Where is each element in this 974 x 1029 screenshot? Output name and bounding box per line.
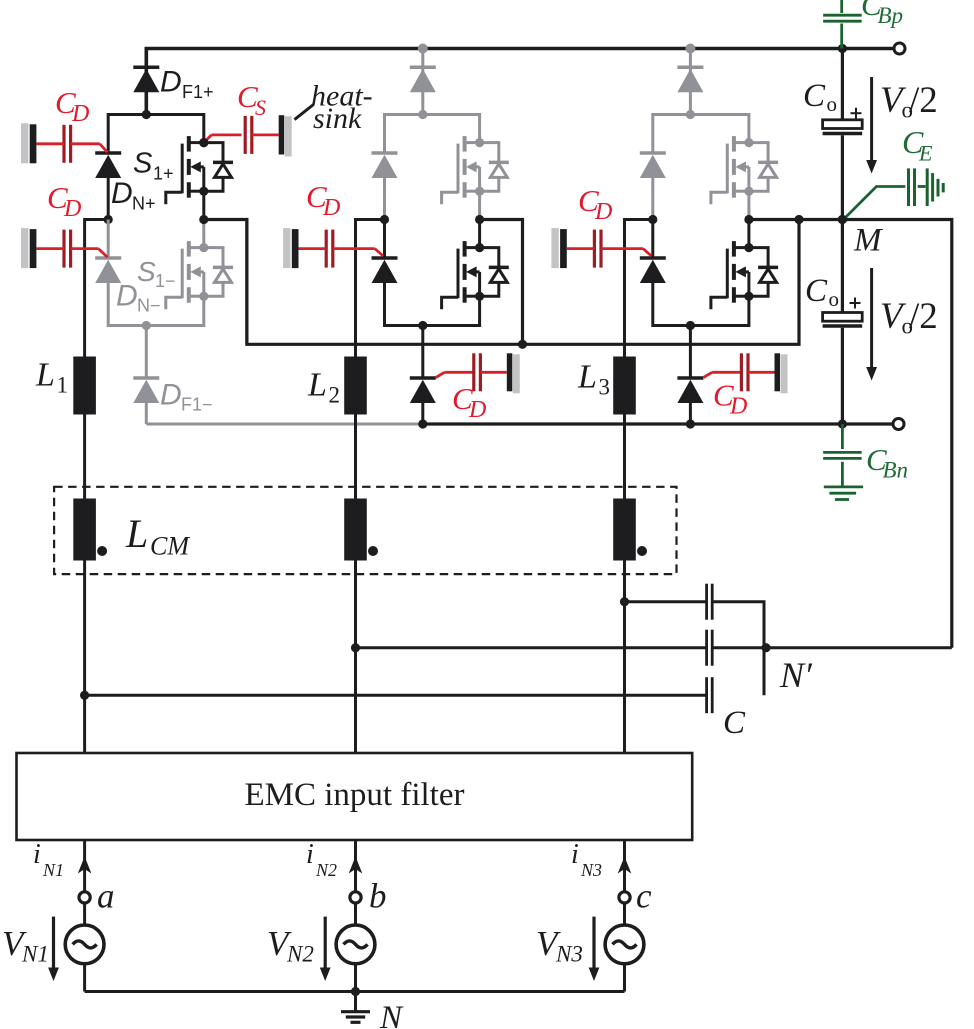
inductor L_2 (winding)	[344, 357, 367, 415]
wire: M to C_o bottom	[841, 220, 844, 313]
wire: leg 3 bridge bottom rail	[653, 283, 749, 326]
wire: phase 3 tap to capacitor C (top)	[625, 600, 707, 603]
wire: L_2 to common-mode choke	[354, 415, 357, 499]
EMC input filter box	[17, 753, 693, 840]
node: leg 3 top rail junction	[685, 44, 695, 54]
wire: negative DC rail gray section (from D_F1-)	[146, 423, 421, 426]
wire: leg 1 midpoint drop to bus	[204, 220, 247, 345]
svg-text:/2: /2	[909, 296, 938, 337]
node: phase 1 tap	[80, 691, 89, 700]
wire: phase 3 line to EMC filter	[623, 602, 626, 753]
diode D_F2-	[410, 378, 436, 403]
wire: D_N3+ anode to phase node B	[651, 178, 654, 220]
svg-text:D: D	[729, 394, 747, 420]
wire: midpoint bus (switch outputs to M)	[247, 220, 799, 345]
wire: node B down to D_N1- cathode	[107, 220, 110, 259]
capacitor C_E (M to earth)	[843, 187, 905, 220]
node: D_F2- on negative rail	[418, 419, 427, 428]
wire: bridge bottom to D_F1-	[145, 326, 148, 379]
wire: L_3 to common-mode choke	[623, 415, 626, 499]
svg-text:S: S	[255, 95, 266, 120]
node: leg 1 switch midpoint (to M bus)	[199, 215, 208, 224]
L_CM polarity dot phase 1	[97, 546, 107, 556]
L_CM polarity dot phase 2	[368, 546, 378, 556]
wire: top rail to positive output terminal	[842, 47, 894, 51]
wire: leg 2 bridge bottom rail	[385, 283, 480, 326]
capacitor C_D (leg2 D_F2- to heatsink)	[436, 372, 445, 377]
wire: phase 2 line to EMC filter	[354, 648, 357, 753]
wire: D_N2+ anode to phase node B	[383, 178, 386, 220]
wire: neutral rail N	[85, 990, 625, 993]
svg-text:D: D	[468, 397, 486, 423]
wire: EMC filter to terminal c with i_N3 arrow	[623, 840, 626, 892]
arrow: i_N1 current direction	[78, 857, 92, 874]
svg-text:D: D	[111, 177, 133, 210]
wire: C top right plate to star point	[712, 602, 764, 696]
wire: phase node B exit to boost inductor L_3	[625, 220, 653, 357]
svg-text:N2: N2	[286, 942, 314, 967]
svg-text:N+: N+	[132, 194, 156, 214]
wire: node B down to D_N2- cathode	[383, 220, 386, 259]
svg-text:o: o	[829, 287, 840, 311]
svg-text:D: D	[63, 196, 81, 222]
wire: choke phase 3 down	[623, 561, 626, 602]
svg-text:N2: N2	[315, 860, 337, 880]
wire: node B down to D_N3- cathode	[651, 220, 654, 259]
svg-text:sink: sink	[313, 102, 362, 135]
leg 2: vertical wire rail to node A (through D_F2+)	[421, 49, 424, 115]
capacitor C_D (leg1 D_N+ to heatsink)	[21, 123, 28, 163]
svg-text:L: L	[125, 511, 148, 556]
node: leg 3 switch midpoint (to M bus)	[744, 215, 753, 224]
node: C_o bottom on negative rail	[838, 419, 847, 428]
svg-text:o: o	[827, 92, 838, 116]
arrow: i_N2 current direction	[349, 857, 363, 874]
arrow: V_N3 voltage direction	[592, 917, 595, 969]
leg 1: vertical wire rail to node A (through D_F1+)	[145, 49, 148, 115]
wire: C middle right plate to N' and M	[712, 646, 952, 649]
diode D_N3+	[640, 153, 666, 178]
node: neutral at ground	[351, 987, 360, 996]
svg-text:D: D	[594, 199, 612, 225]
AC source V_N3	[605, 925, 644, 964]
capacitor C phase 3	[705, 584, 708, 620]
arrow: V_o/2 bottom	[870, 268, 873, 368]
svg-text:CM: CM	[150, 532, 190, 561]
node: S_1+ drain (redrawn)	[199, 138, 208, 147]
diode D_N1+	[95, 153, 121, 178]
node: bus junction leg2	[518, 340, 527, 349]
wire: positive DC rail (top)	[146, 49, 842, 115]
svg-text:F1+: F1+	[182, 82, 214, 102]
capacitor C_o (top)	[823, 120, 863, 129]
wire: D_F3- anode to negative rail	[689, 403, 692, 424]
AC source V_N2	[336, 925, 375, 964]
terminal b	[350, 892, 361, 903]
L_CM winding phase 2	[344, 499, 367, 561]
diode D_N2+	[372, 153, 398, 178]
wire: negative rail to negative output terminal	[842, 422, 894, 425]
capacitor C_Bp (positive rail to earth)	[840, 0, 843, 13]
svg-text:a: a	[97, 877, 115, 916]
wire: rail node down to C_o top	[841, 49, 844, 120]
L_CM winding phase 3	[613, 499, 636, 561]
svg-text:i: i	[33, 839, 41, 870]
transistor S_1+ (upper MOSFET)	[166, 136, 233, 204]
node: leg 2 bridge bottom center	[418, 321, 427, 330]
diode D_N1-	[95, 258, 121, 283]
wire: S_2+ source down to mid node	[478, 191, 481, 219]
transistor S_1- (lower MOSFET)	[166, 241, 233, 309]
wire: leg 1 bridge bottom rail	[108, 283, 204, 326]
wire: EMC filter to terminal b with i_N2 arrow	[354, 840, 357, 892]
wire: phase node B exit to boost inductor L_2	[356, 220, 385, 357]
wire: terminal b to source V_N2	[354, 903, 357, 925]
wire: M line from leg3 to right edge	[749, 220, 952, 648]
wire: C_o top to M	[841, 135, 844, 219]
svg-text:N3: N3	[580, 860, 602, 880]
diode D_F1-	[133, 378, 159, 403]
wire: source V_N1 to neutral rail	[83, 964, 86, 992]
svg-text:N3: N3	[555, 942, 583, 967]
node: D_F3- on negative rail	[686, 419, 695, 428]
wire: L_1 to common-mode choke	[83, 415, 86, 499]
transistor S_3+ (upper MOSFET)	[711, 136, 778, 204]
arrow: V_N1 voltage direction	[52, 917, 55, 969]
svg-text:C: C	[723, 705, 746, 741]
svg-text:N−: N−	[137, 296, 161, 316]
diode D_F3-	[677, 378, 703, 403]
wire: leg 3 branch at node A	[653, 115, 749, 154]
diode D_F2+	[410, 67, 436, 92]
svg-text:1−: 1−	[155, 271, 176, 291]
node: top rail at C_o string	[838, 44, 847, 53]
node: M bus junction at C_o string	[838, 215, 847, 224]
wire: terminal a to source V_N1	[83, 903, 86, 925]
wire: terminal c to source V_N3	[623, 903, 626, 925]
node: phase 3 tap	[620, 597, 629, 606]
svg-text:S: S	[137, 256, 156, 287]
leg 3: vertical wire rail to node A (through D_F3+)	[689, 49, 692, 115]
plus sign C_o bottom	[850, 302, 861, 304]
transistor S_3- (lower MOSFET)	[711, 241, 778, 309]
node: M with C_E tap	[838, 215, 847, 224]
node A leg 2	[418, 110, 427, 119]
svg-text:D: D	[71, 101, 89, 127]
svg-text:F1−: F1−	[181, 395, 213, 415]
svg-text:S: S	[133, 148, 153, 180]
wire: S_1+ source down to mid node	[202, 191, 205, 219]
wire: phase 1 tap to capacitor C (bottom)	[85, 694, 707, 697]
ground N	[354, 992, 357, 1012]
svg-text:D: D	[160, 66, 182, 99]
node: leg 2 switch midpoint (to M bus)	[475, 215, 484, 224]
wire: source V_N3 to neutral rail	[623, 964, 626, 992]
wire: D_F1- anode to negative rail	[145, 403, 148, 424]
node B (phase) leg 1	[104, 215, 113, 224]
node N' star point	[761, 643, 770, 652]
transistor S_2+ (upper MOSFET)	[442, 136, 509, 204]
diode D_F1+	[133, 67, 159, 92]
capacitor C_Bn (negative rail to earth)	[841, 424, 844, 449]
arrow: V_N2 voltage direction	[324, 917, 327, 969]
wire: bridge bottom to D_F3-	[689, 326, 692, 379]
svg-text:i: i	[571, 839, 579, 870]
capacitor C_D (leg1 D_N- to heatsink)	[21, 228, 28, 268]
wire: D_F2- anode to negative rail	[421, 403, 424, 424]
svg-text:D: D	[322, 195, 340, 221]
capacitor C_D (leg2 D_N- to heatsink)	[283, 228, 290, 268]
capacitor C_D (leg3 D_F3- to heatsink)	[703, 372, 712, 377]
node: leg 2 top rail junction	[418, 44, 428, 54]
svg-text:L: L	[35, 357, 55, 394]
node: leg 3 bridge bottom center	[686, 321, 695, 330]
svg-text:C: C	[803, 78, 826, 114]
node B (phase) leg 2	[380, 215, 389, 224]
svg-text:N: N	[379, 1000, 404, 1029]
svg-text:N1: N1	[42, 860, 64, 880]
svg-text:1: 1	[57, 373, 69, 398]
wire: EMC filter to terminal a with i_N1 arrow	[83, 840, 86, 892]
svg-text:3: 3	[599, 375, 611, 400]
inductor L_1 (winding)	[73, 357, 96, 415]
L_CM polarity dot phase 3	[637, 546, 647, 556]
svg-text:C: C	[805, 273, 828, 309]
node B (phase) leg 3	[648, 215, 657, 224]
node: phase 2 tap	[351, 643, 360, 652]
svg-text:D: D	[160, 379, 182, 412]
diode D_N3-	[640, 258, 666, 283]
svg-text:N′: N′	[779, 655, 813, 695]
wire: mid node down to S_1- drain	[202, 220, 205, 248]
ground: C_Bn earth	[824, 485, 863, 488]
wire: phase 2 tap to capacitor C (middle)	[356, 646, 707, 649]
capacitor C phase 1	[705, 677, 708, 713]
svg-text:/2: /2	[909, 80, 938, 121]
node A leg 1	[142, 110, 151, 119]
svg-text:E: E	[918, 141, 933, 166]
wire: phase node B exit to boost inductor L_1	[85, 220, 109, 357]
wire: S_3+ source down to mid node	[747, 191, 750, 219]
svg-text:Bp: Bp	[878, 3, 904, 28]
svg-text:L: L	[307, 367, 327, 404]
wire: leg 2 midpoint drop to bus	[480, 220, 523, 345]
wire: D_N1+ anode to phase node B	[107, 178, 110, 220]
wire: choke phase 2 down	[354, 561, 357, 648]
L_CM winding phase 1	[73, 499, 96, 561]
capacitor C_D (leg3 D_N- to heatsink)	[551, 228, 558, 268]
svg-text:EMC input filter: EMC input filter	[245, 777, 465, 813]
svg-text:Bn: Bn	[883, 458, 909, 483]
svg-text:c: c	[636, 877, 652, 916]
arrow: V_o/2 top	[870, 77, 873, 161]
wire: mid node down to S_3- drain	[747, 220, 750, 248]
svg-text:N1: N1	[21, 942, 49, 967]
arrow: i_N3 current direction	[618, 857, 632, 874]
node A leg 3	[686, 110, 695, 119]
terminal: positive output	[894, 43, 905, 54]
wire: C_o bottom to negative rail	[841, 328, 844, 424]
AC source V_N1	[65, 925, 104, 964]
wire: mid node down to S_2- drain	[478, 220, 481, 248]
terminal: negative output	[893, 419, 904, 430]
svg-text:b: b	[369, 877, 387, 916]
pointer line to heatsink	[295, 105, 314, 120]
wire: choke phase 1 down	[83, 561, 86, 696]
capacitor C_o (bottom)	[823, 313, 863, 322]
capacitor C_S (S_1+ drain to heatsink)	[204, 135, 212, 143]
node: bus riser joins M line	[794, 215, 803, 224]
plus sign C_o top	[851, 112, 862, 114]
terminal c	[619, 892, 630, 903]
svg-text:L: L	[577, 359, 597, 396]
svg-text:M: M	[853, 223, 883, 259]
wire: phase 1 line to EMC filter	[83, 695, 86, 753]
wire: source V_N2 to neutral rail	[354, 964, 357, 992]
svg-text:2: 2	[329, 383, 341, 408]
svg-text:1+: 1+	[153, 164, 174, 184]
wire: bridge bottom to D_F2-	[421, 326, 424, 379]
capacitor C phase 2	[705, 630, 708, 666]
diode D_N2-	[372, 258, 398, 283]
inductor L_3 (winding)	[613, 357, 636, 415]
terminal a	[79, 892, 90, 903]
transistor S_2- (lower MOSFET)	[442, 241, 509, 309]
wire: leg 2 branch at node A	[385, 115, 480, 154]
ground: C_E earth (rotated)	[926, 168, 929, 206]
wire: leg 1 branch at node A	[108, 115, 204, 154]
svg-text:D: D	[116, 280, 138, 313]
common-mode choke L_CM dashed box	[54, 487, 676, 574]
svg-text:i: i	[306, 839, 314, 870]
node: leg 1 bridge bottom center	[142, 321, 151, 330]
wire: negative DC rail black section	[421, 422, 842, 425]
diode D_F3+	[677, 67, 703, 92]
